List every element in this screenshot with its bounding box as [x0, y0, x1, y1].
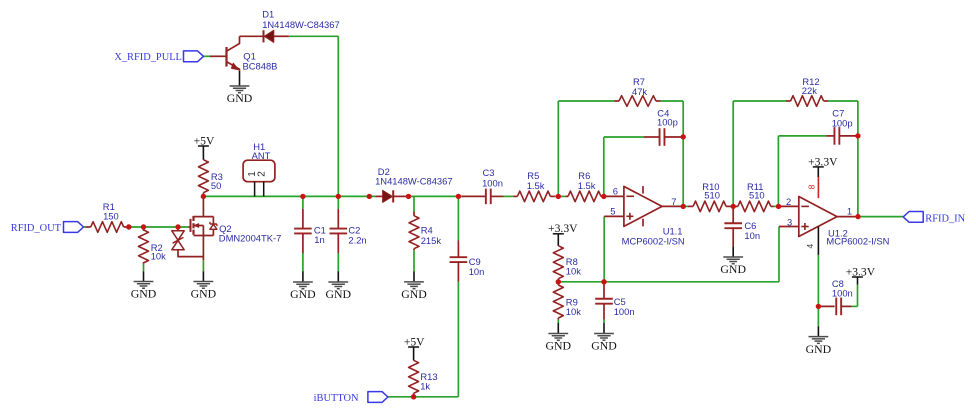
svg-text:DMN2004TK-7: DMN2004TK-7 [219, 233, 282, 244]
svg-text:8: 8 [806, 184, 816, 189]
svg-text:6: 6 [613, 186, 618, 197]
svg-text:3: 3 [787, 217, 792, 228]
svg-text:22k: 22k [802, 85, 817, 96]
svg-text:+5V: +5V [194, 134, 215, 147]
svg-text:100p: 100p [832, 117, 853, 128]
svg-text:+3.3V: +3.3V [808, 155, 838, 168]
svg-text:BC848B: BC848B [243, 61, 278, 72]
svg-text:510: 510 [749, 189, 765, 200]
svg-text:GND: GND [806, 342, 832, 356]
svg-text:RFID_OUT: RFID_OUT [11, 223, 62, 234]
svg-text:D1: D1 [262, 8, 274, 19]
svg-text:510: 510 [704, 189, 720, 200]
svg-text:1N4148W-C84367: 1N4148W-C84367 [262, 19, 339, 30]
svg-text:GND: GND [401, 287, 427, 301]
svg-text:GND: GND [326, 287, 352, 301]
svg-text:100n: 100n [832, 287, 853, 298]
svg-text:1.5k: 1.5k [578, 180, 596, 191]
svg-text:1N4148W-C84367: 1N4148W-C84367 [375, 176, 452, 187]
svg-text:GND: GND [227, 91, 253, 105]
svg-text:10n: 10n [744, 230, 760, 241]
svg-text:1k: 1k [420, 381, 430, 392]
svg-text:MCP6002-I/SN: MCP6002-I/SN [826, 235, 889, 246]
svg-text:X_RFID_PULL: X_RFID_PULL [114, 52, 182, 63]
svg-text:10n: 10n [469, 266, 485, 277]
svg-text:47k: 47k [632, 86, 647, 97]
svg-text:2: 2 [256, 171, 267, 177]
svg-text:100p: 100p [657, 117, 678, 128]
svg-text:4: 4 [805, 244, 815, 249]
svg-text:1n: 1n [314, 234, 324, 245]
svg-text:1.5k: 1.5k [527, 180, 545, 191]
svg-text:+3.3V: +3.3V [548, 222, 578, 235]
svg-text:GND: GND [191, 287, 217, 301]
svg-text:GND: GND [591, 339, 617, 353]
svg-text:100n: 100n [614, 306, 635, 317]
svg-text:10k: 10k [151, 251, 166, 262]
svg-text:215k: 215k [421, 235, 442, 246]
svg-text:GND: GND [720, 262, 746, 276]
svg-text:+5V: +5V [404, 335, 425, 348]
svg-text:GND: GND [546, 339, 572, 353]
svg-text:150: 150 [103, 210, 119, 221]
svg-text:2.2n: 2.2n [348, 234, 366, 245]
svg-text:ANT: ANT [252, 150, 271, 161]
svg-text:10k: 10k [566, 306, 581, 317]
svg-text:1: 1 [847, 206, 852, 217]
svg-text:MCP6002-I/SN: MCP6002-I/SN [622, 236, 685, 247]
svg-text:GND: GND [290, 287, 316, 301]
svg-text:50: 50 [211, 180, 221, 191]
svg-text:7: 7 [671, 196, 676, 207]
svg-text:100n: 100n [482, 177, 503, 188]
svg-text:+3.3V: +3.3V [846, 265, 876, 278]
svg-text:iBUTTON: iBUTTON [314, 393, 359, 404]
svg-text:10k: 10k [566, 265, 581, 276]
svg-text:RFID_IN: RFID_IN [925, 213, 965, 224]
svg-text:2: 2 [786, 196, 791, 207]
svg-text:GND: GND [131, 287, 157, 301]
svg-text:5: 5 [610, 206, 615, 217]
